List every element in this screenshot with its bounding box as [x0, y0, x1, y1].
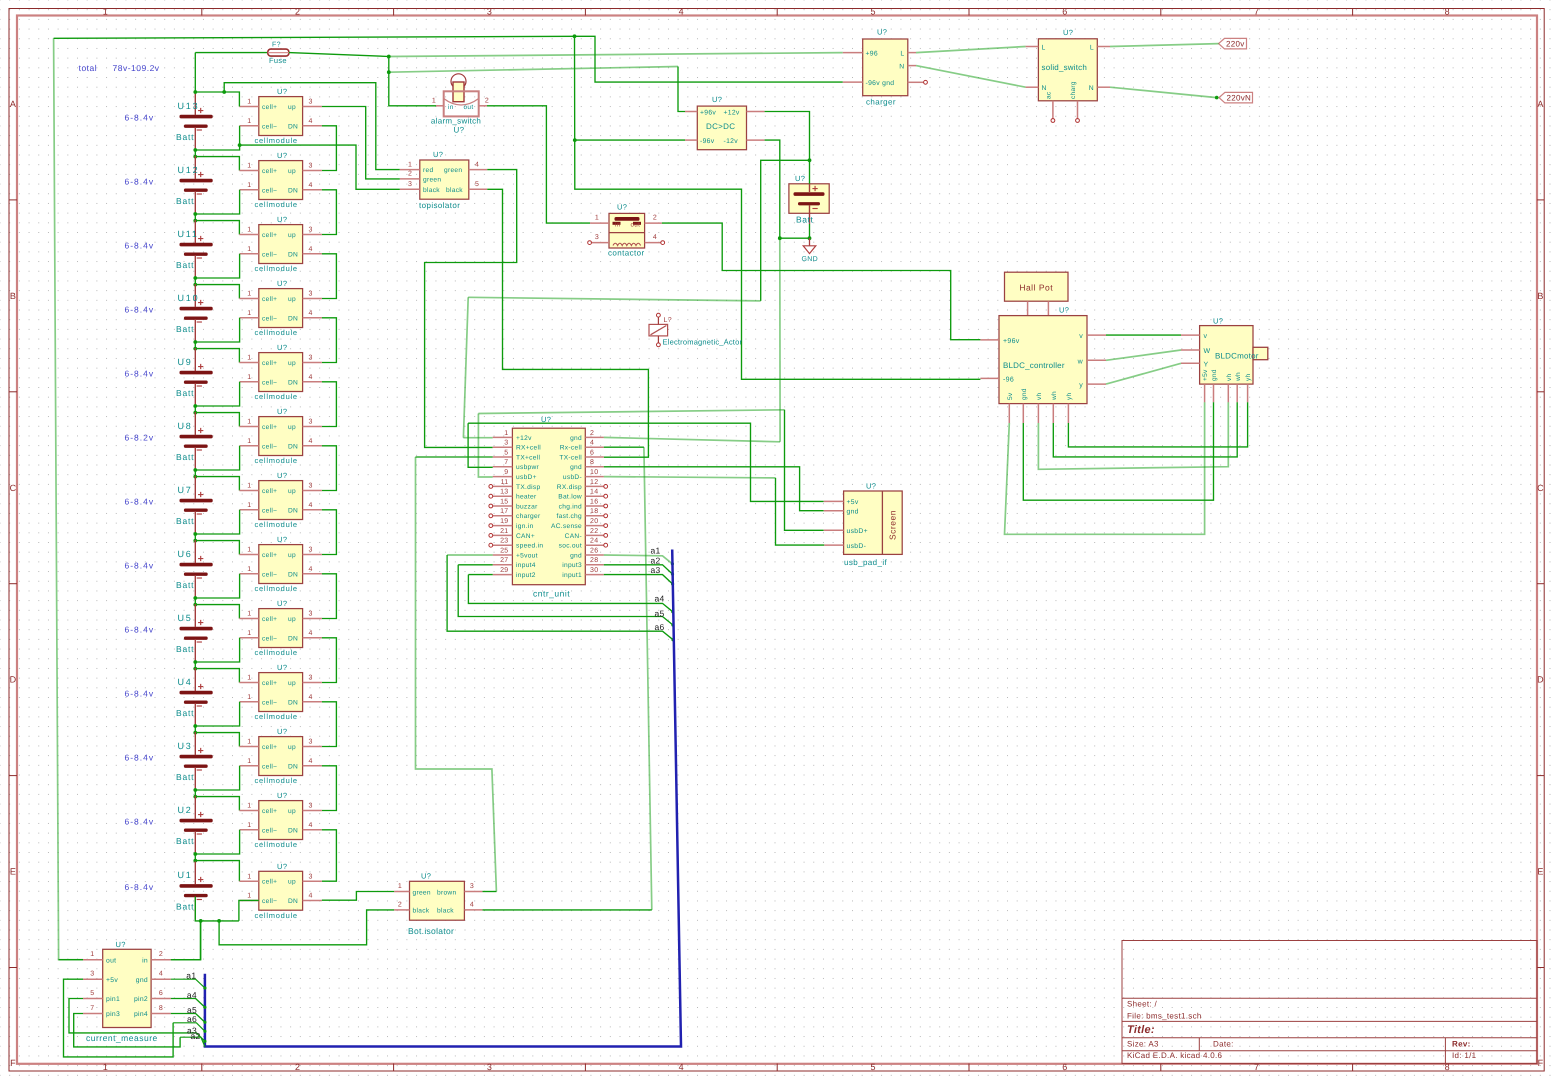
svg-text:cntr_unit: cntr_unit [533, 589, 570, 599]
svg-text:-96v: -96v [700, 138, 715, 145]
ground symbol GND [809, 238, 811, 245]
svg-text:usb_pad_if: usb_pad_if [844, 558, 888, 567]
battery U9 [176, 348, 213, 406]
svg-text:1: 1 [247, 758, 251, 765]
svg-text:6-8.4v: 6-8.4v [125, 497, 155, 507]
junction [193, 411, 197, 415]
svg-text:5: 5 [90, 990, 94, 997]
svg-text:6-8.4v: 6-8.4v [125, 305, 155, 315]
wire junction up to U1 cellmodule cell- [239, 900, 259, 921]
svg-text:1: 1 [247, 611, 251, 618]
svg-text:DN: DN [288, 571, 298, 578]
svg-text:2: 2 [590, 430, 594, 437]
wire Batt - node link [780, 237, 810, 239]
svg-text:23: 23 [500, 538, 508, 545]
wire battery chain segment [194, 662, 196, 669]
wire Batt - down [809, 224, 811, 238]
svg-text:1: 1 [398, 883, 402, 890]
svg-text:cell−: cell− [262, 443, 277, 450]
svg-text:3: 3 [90, 971, 94, 978]
svg-text:4: 4 [309, 758, 313, 765]
svg-text:2: 2 [485, 98, 489, 105]
svg-text:25: 25 [500, 547, 508, 554]
wire U6 DN to U5 up [322, 574, 337, 619]
svg-text:a1: a1 [186, 971, 196, 981]
battery U13 [176, 92, 213, 150]
svg-text:U10: U10 [178, 293, 200, 303]
svg-text:1: 1 [247, 310, 251, 317]
svg-text:DN: DN [288, 123, 298, 130]
svg-text:3: 3 [309, 739, 313, 746]
svg-text:red: red [423, 167, 433, 174]
svg-text:v: v [1204, 333, 1208, 340]
svg-text:6-8.2v: 6-8.2v [125, 433, 155, 443]
junction battery U12 minus [193, 212, 197, 216]
svg-text:29: 29 [500, 567, 508, 574]
svg-text:+: + [198, 425, 204, 437]
svg-text:up: up [288, 680, 296, 687]
battery U4 [176, 668, 213, 726]
global label 220v [1219, 38, 1247, 49]
svg-text:cellmodule: cellmodule [255, 328, 298, 337]
svg-text:U?: U? [277, 791, 287, 800]
wire Batt + up to node [809, 160, 811, 184]
svg-text:U6: U6 [178, 549, 193, 559]
svg-text:charger: charger [516, 513, 541, 520]
svg-text:2: 2 [398, 901, 402, 908]
svg-text:3: 3 [504, 440, 508, 447]
svg-text:fast.chg: fast.chg [557, 513, 583, 520]
svg-text:3: 3 [309, 611, 313, 618]
svg-text:4: 4 [309, 310, 313, 317]
svg-text:+5v: +5v [106, 977, 118, 984]
usb_pad_if U? (Screen) [824, 482, 902, 567]
svg-text:3: 3 [309, 163, 313, 170]
wire contactor pin2 to BLDC_controller +96v [662, 223, 981, 340]
svg-text:+: + [198, 361, 204, 373]
junction Batt - [808, 236, 812, 240]
svg-text:26: 26 [590, 547, 598, 554]
svg-text:8: 8 [1445, 7, 1450, 17]
wire drop to cntr_unit +12v [463, 297, 468, 437]
svg-text:1: 1 [247, 803, 251, 810]
svg-text:cellmodule: cellmodule [255, 911, 298, 920]
svg-text:12: 12 [590, 479, 598, 486]
svg-text:up: up [288, 552, 296, 559]
svg-text:v: v [1079, 333, 1083, 340]
svg-text:cell+: cell+ [262, 616, 277, 623]
svg-text:+12v: +12v [516, 435, 532, 442]
Bot.isolator U? [394, 871, 482, 936]
svg-text:−: − [196, 444, 202, 456]
svg-text:11: 11 [501, 479, 509, 486]
wire U13 DN to U12 up [322, 126, 337, 171]
svg-text:−: − [196, 380, 202, 392]
svg-text:gnd: gnd [1021, 388, 1028, 400]
wire battery junction to next cellmodule pin1 (U8) [195, 413, 239, 427]
svg-text:up: up [288, 879, 296, 886]
wire node to DC>DC +96v (diagonal) [389, 67, 678, 73]
svg-text:1: 1 [247, 873, 251, 880]
svg-text:1: 1 [247, 483, 251, 490]
junction [193, 667, 197, 671]
wire cellmodule cell- to battery U6 - junction [195, 574, 239, 598]
junction [193, 539, 197, 543]
svg-text:8: 8 [590, 459, 594, 466]
blue bus [205, 550, 681, 1047]
svg-text:+5v: +5v [1202, 369, 1209, 381]
svg-text:speed.in: speed.in [516, 543, 543, 550]
svg-text:2: 2 [159, 951, 163, 958]
wire +5vout to bus a6 [447, 555, 673, 640]
svg-text:6-8.4v: 6-8.4v [125, 113, 155, 123]
battery Batt (aux) U? [789, 174, 829, 225]
svg-text:green: green [413, 889, 431, 896]
svg-text:U?: U? [277, 407, 287, 416]
svg-text:RX+cell: RX+cell [516, 445, 541, 452]
svg-text:Batt: Batt [176, 772, 194, 782]
wire input2 to bus a4 [468, 575, 672, 612]
svg-text:W: W [1204, 348, 1211, 355]
junction on U13 cell- wire [238, 143, 242, 147]
svg-text:A: A [1537, 99, 1543, 109]
wire U7 DN to U6 up [322, 510, 337, 555]
svg-text:DN: DN [288, 699, 298, 706]
svg-text:Batt: Batt [176, 196, 194, 206]
wire usbD+ diagonal [478, 410, 784, 414]
cellmodule U? (for U11) [239, 215, 322, 273]
svg-text:U5: U5 [178, 613, 193, 623]
svg-text:out: out [631, 222, 641, 229]
cellmodule U? (for U2) [239, 791, 322, 849]
battery U1 [176, 861, 213, 919]
svg-text:5: 5 [870, 1062, 875, 1072]
junction [193, 603, 197, 607]
svg-text:cellmodule: cellmodule [255, 648, 298, 657]
svg-text:3: 3 [309, 99, 313, 106]
svg-text:input1: input1 [562, 572, 582, 579]
junction battery U7 minus [193, 532, 197, 536]
svg-text:DN: DN [288, 443, 298, 450]
svg-text:pin4: pin4 [134, 1011, 148, 1018]
wire battery junction to next cellmodule pin1 (U12) [195, 157, 239, 171]
svg-text:7: 7 [504, 459, 508, 466]
battery U2 [176, 796, 213, 854]
cellmodule U? (for U9) [239, 343, 322, 401]
svg-text:U?: U? [277, 862, 287, 871]
svg-text:4: 4 [309, 182, 313, 189]
junction battery U13 minus [193, 148, 197, 152]
junction [193, 347, 197, 351]
wire battery chain segment [194, 726, 196, 733]
wire battery chain segment [194, 150, 196, 157]
svg-text:+: + [198, 681, 204, 693]
svg-text:U?: U? [421, 871, 431, 880]
svg-text:a1: a1 [651, 546, 661, 556]
wire Batt - down to gnd net [779, 238, 781, 442]
wire usbD+ riser [478, 414, 492, 478]
cellmodule U? (for U1) [239, 862, 322, 920]
svg-text:+96v: +96v [700, 109, 716, 116]
svg-text:cell+: cell+ [262, 168, 277, 175]
svg-text:pin3: pin3 [106, 1011, 120, 1018]
wire -96 rail to BLDC_controller -96 [575, 36, 981, 379]
svg-text:TX-cell: TX-cell [559, 454, 582, 461]
svg-text:-96: -96 [1003, 377, 1014, 384]
wire DC>DC -12v to Batt - node [765, 140, 780, 238]
svg-text:1: 1 [408, 161, 412, 168]
wire diagonal to +12v drop [468, 297, 761, 301]
electromagnetic actor L? [649, 313, 742, 346]
svg-text:3: 3 [408, 181, 412, 188]
svg-text:1: 1 [247, 566, 251, 573]
wire cellmodule cell- to battery U3 - junction [195, 766, 239, 790]
svg-text:U?: U? [1059, 306, 1069, 315]
svg-text:5: 5 [870, 7, 875, 17]
svg-text:U7: U7 [178, 485, 193, 495]
cellmodule U? (for U8) [239, 407, 322, 465]
junction -12v / Batt - [778, 236, 782, 240]
svg-text:charger: charger [866, 98, 896, 107]
wire battery chain segment [194, 790, 196, 797]
svg-text:input2: input2 [516, 572, 536, 579]
svg-text:Screen: Screen [888, 510, 898, 540]
battery U8 [176, 412, 213, 470]
svg-text:gnd: gnd [847, 509, 859, 516]
svg-text:RX.disp: RX.disp [557, 484, 582, 491]
junction [193, 859, 197, 863]
svg-text:vh: vh [1226, 373, 1233, 381]
wire Bot.isolator pin2 to U1 minus junction [219, 910, 394, 945]
svg-text:1: 1 [247, 227, 251, 234]
svg-text:up: up [288, 168, 296, 175]
wire battery U1 minus to bottom junction row [195, 897, 239, 921]
svg-text:2: 2 [295, 7, 300, 17]
junction [193, 219, 197, 223]
contactor pin4 unconnected [661, 241, 665, 245]
svg-text:yh: yh [1245, 373, 1252, 381]
wire Batt + node toward cntr +12v [761, 160, 810, 301]
svg-text:10: 10 [590, 469, 598, 476]
svg-text:4: 4 [159, 971, 163, 978]
junction battery U11 minus [193, 276, 197, 280]
svg-text:cellmodule: cellmodule [255, 584, 298, 593]
svg-text:1: 1 [247, 246, 251, 253]
junction battery U13 + [193, 90, 197, 94]
svg-text:E: E [10, 867, 16, 877]
svg-text:-12v: -12v [724, 138, 739, 145]
svg-text:3: 3 [309, 419, 313, 426]
wire U11 DN to U10 up [322, 254, 337, 299]
junction battery U2 minus [193, 852, 197, 856]
wire junction down to current_measure in pin [171, 921, 201, 960]
svg-text:U?: U? [795, 174, 805, 183]
junction U1 minus / current sense [199, 919, 203, 923]
cellmodule U? (for U13) [239, 87, 322, 145]
wire down to usb_pad usbD+ [785, 410, 824, 531]
svg-text:black: black [423, 187, 440, 194]
svg-text:cell−: cell− [262, 507, 277, 514]
svg-text:usbD+: usbD+ [516, 474, 537, 481]
svg-text:U13: U13 [178, 101, 200, 111]
svg-text:1: 1 [247, 99, 251, 106]
svg-text:wh: wh [1051, 391, 1058, 401]
svg-text:U?: U? [712, 95, 722, 104]
svg-text:3: 3 [309, 355, 313, 362]
svg-text:ign.in: ign.in [516, 523, 534, 530]
svg-text:black: black [413, 908, 430, 915]
solid_switch ac pin unconnected [1051, 119, 1055, 123]
cellmodule U? (for U6) [239, 535, 322, 593]
svg-text:Batt: Batt [176, 452, 194, 462]
svg-text:U2: U2 [178, 805, 193, 815]
svg-text:Batt: Batt [176, 580, 194, 590]
svg-text:−: − [196, 894, 202, 906]
svg-text:1: 1 [247, 893, 251, 900]
svg-text:−: − [196, 252, 202, 264]
svg-text:cell+: cell+ [262, 879, 277, 886]
svg-text:U12: U12 [178, 165, 200, 175]
svg-text:usbD-: usbD- [847, 543, 867, 550]
wire TX+cell chain to Bot.isolator pin3 [416, 457, 497, 892]
svg-text:5: 5 [475, 181, 479, 188]
svg-text:+5v: +5v [847, 499, 859, 506]
wire U9 DN to U8 up [322, 382, 337, 427]
svg-text:1: 1 [432, 98, 436, 105]
svg-text:6-8.4v: 6-8.4v [125, 241, 155, 251]
svg-text:up: up [288, 424, 296, 431]
svg-text:C: C [1537, 483, 1544, 493]
svg-text:black: black [437, 908, 454, 915]
wire gnd pin2 to battery minus net [604, 437, 780, 441]
wire pin4 to a5 [171, 1014, 205, 1023]
current_measure U? [83, 940, 171, 1043]
wire battery junction to next cellmodule pin1 (U5) [195, 605, 239, 619]
svg-text:BLDCmotor: BLDCmotor [1215, 351, 1259, 360]
svg-text:U9: U9 [178, 357, 193, 367]
svg-text:U3: U3 [178, 741, 193, 751]
battery U6 [176, 540, 213, 598]
svg-text:7: 7 [1254, 7, 1259, 17]
global label 220vN [1219, 92, 1253, 103]
contactor U? [588, 203, 665, 258]
svg-text:30: 30 [590, 567, 598, 574]
svg-text:CAN+: CAN+ [516, 533, 535, 540]
svg-text:8: 8 [159, 1005, 163, 1012]
svg-text:brown: brown [437, 889, 456, 896]
wire cellmodule cell- to battery U4 - junction [195, 702, 239, 726]
svg-text:Batt: Batt [796, 215, 814, 225]
wire fuse right to node [289, 53, 389, 57]
wire cellmodule cell- to battery U10 - junction [195, 318, 239, 342]
svg-text:U1: U1 [178, 870, 193, 880]
wire battery junction to next cellmodule pin1 (U7) [195, 477, 239, 491]
svg-text:+: + [198, 809, 204, 821]
svg-text:1: 1 [247, 547, 251, 554]
svg-text:−: − [196, 700, 202, 712]
wire U10 DN to U9 up [322, 318, 337, 363]
wire U12 DN to U11 up [322, 190, 337, 235]
svg-text:3: 3 [309, 483, 313, 490]
svg-text:1: 1 [504, 430, 508, 437]
svg-text:24: 24 [590, 538, 598, 545]
svg-text:up: up [288, 616, 296, 623]
wire BLDC vh to motor vh [1038, 402, 1228, 469]
fuse F? [268, 49, 289, 56]
svg-text:+: + [198, 489, 204, 501]
svg-text:U?: U? [454, 126, 465, 135]
svg-text:6: 6 [1062, 7, 1067, 17]
wire solid_switch N to 220vN label [1110, 87, 1217, 97]
svg-text:−: − [196, 508, 202, 520]
BLDCmotor U? [1181, 317, 1268, 403]
svg-text:U?: U? [277, 663, 287, 672]
svg-text:3: 3 [309, 227, 313, 234]
svg-text:a2: a2 [191, 1031, 201, 1041]
wire pin3 around to a2 [74, 1014, 180, 1047]
svg-text:cell+: cell+ [262, 744, 277, 751]
svg-text:28: 28 [590, 557, 598, 564]
svg-text:4: 4 [679, 7, 684, 17]
svg-text:cellmodule: cellmodule [255, 264, 298, 273]
wire a6 entry [173, 1023, 205, 1032]
svg-text:Rx-cell: Rx-cell [560, 445, 582, 452]
svg-text:+: + [812, 183, 818, 195]
svg-text:input3: input3 [562, 562, 582, 569]
svg-text:−: − [196, 124, 202, 136]
svg-text:U?: U? [116, 940, 126, 949]
svg-text:cell−: cell− [262, 699, 277, 706]
wire battery junction to next cellmodule pin1 (U10) [195, 285, 239, 299]
svg-text:B: B [10, 291, 16, 301]
svg-text:cell+: cell+ [262, 808, 277, 815]
cellmodule U? (for U7) [239, 471, 322, 529]
svg-text:1: 1 [247, 630, 251, 637]
svg-text:up: up [288, 104, 296, 111]
svg-text:N: N [899, 63, 904, 70]
svg-text:1: 1 [247, 355, 251, 362]
wire input4 [458, 564, 493, 566]
wire U5 DN to U4 up [322, 638, 337, 683]
svg-text:pin1: pin1 [106, 996, 120, 1003]
svg-text:N: N [1042, 85, 1047, 92]
wire cellmodule cell- to battery U13 - junction [195, 126, 239, 150]
wire in pin up to U1 junction [171, 921, 201, 960]
border column ticks and numbers [201, 9, 203, 16]
svg-text:4: 4 [475, 161, 479, 168]
svg-text:+: + [198, 617, 204, 629]
svg-text:cellmodule: cellmodule [255, 776, 298, 785]
svg-text:1: 1 [247, 374, 251, 381]
svg-text:Batt: Batt [176, 644, 194, 654]
wire cellmodule cell- to battery U11 - junction [195, 254, 239, 278]
junction top rail [573, 34, 577, 38]
svg-text:charg: charg [1070, 81, 1077, 99]
svg-text:U?: U? [877, 28, 887, 37]
svg-text:5: 5 [504, 449, 508, 456]
svg-text:in: in [615, 222, 621, 229]
svg-text:L: L [900, 50, 904, 57]
topisolator U? [400, 150, 488, 210]
svg-text:+96: +96 [866, 50, 878, 57]
wire battery junction to next cellmodule pin1 (U2) [195, 797, 239, 811]
svg-text:U?: U? [277, 471, 287, 480]
wire input3 to bus a2 [604, 565, 673, 574]
svg-text:4: 4 [309, 630, 313, 637]
svg-text:heater: heater [516, 494, 537, 501]
svg-text:wh: wh [1235, 372, 1242, 382]
svg-text:F?: F? [272, 42, 281, 49]
